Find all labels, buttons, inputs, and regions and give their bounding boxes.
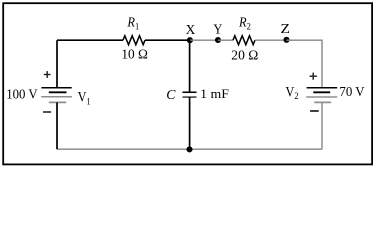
- battery V1 plate 3 long: [41, 96, 72, 98]
- junction node bottom: [186, 146, 192, 152]
- wire V1 top: [56, 40, 58, 87]
- wire R2 to node Z: [255, 39, 287, 41]
- wire capacitor branch top: [189, 40, 191, 92]
- battery V2 plate 4 short: [314, 101, 331, 103]
- resistor R2: [233, 36, 255, 45]
- wire capacitor branch bottom: [189, 97, 191, 149]
- node Y: [215, 37, 221, 43]
- wire top-left from V1 to R1: [57, 39, 123, 41]
- wire bottom: [57, 148, 322, 150]
- battery V2 plate 1 long: [307, 87, 338, 89]
- svg-text:70 V: 70 V: [339, 84, 365, 99]
- wire V2 bottom: [321, 102, 323, 149]
- node X: [187, 37, 193, 43]
- wire node Z to top-right corner down to V2: [287, 40, 323, 87]
- svg-text:X: X: [186, 22, 196, 37]
- svg-text:C: C: [166, 87, 176, 102]
- minus sign V1: [43, 111, 51, 113]
- battery V1 plate 1 long: [41, 87, 71, 89]
- plus sign V2: [310, 73, 317, 80]
- capacitor C plate top: [183, 91, 197, 93]
- node Z: [283, 37, 289, 43]
- wire node Y to R2: [218, 39, 233, 41]
- resistor R1: [123, 36, 145, 45]
- wire V1 bottom: [56, 102, 58, 149]
- plus sign V1: [44, 71, 51, 78]
- wire R1 to node X: [145, 39, 190, 41]
- svg-text:Y: Y: [213, 22, 222, 37]
- svg-text:100 V: 100 V: [6, 87, 38, 102]
- wire node X to node Y: [190, 39, 218, 41]
- capacitor C plate bottom: [183, 96, 197, 98]
- svg-text:1 mF: 1 mF: [200, 86, 229, 101]
- svg-text:20 Ω: 20 Ω: [231, 47, 258, 62]
- battery V2 plate 2 short: [313, 91, 330, 93]
- svg-text:10 Ω: 10 Ω: [121, 46, 147, 61]
- battery V1 plate 2 short: [49, 91, 67, 93]
- minus sign V2: [310, 110, 319, 112]
- battery V2 plate 3 long: [306, 96, 337, 98]
- battery V1 plate 4 short: [49, 101, 66, 103]
- svg-text:Z: Z: [281, 21, 291, 36]
